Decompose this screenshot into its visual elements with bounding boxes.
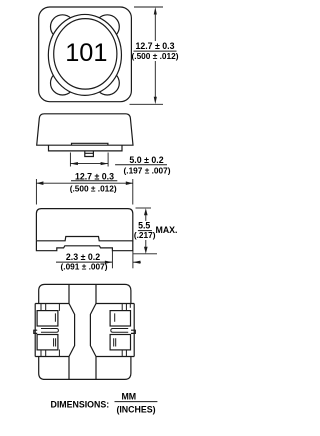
svg-text:12.7 ± 0.3: 12.7 ± 0.3 — [135, 41, 174, 51]
svg-text:(.197 ± .007): (.197 ± .007) — [124, 165, 171, 175]
svg-text:101: 101 — [65, 39, 107, 67]
svg-text:DIMENSIONS:: DIMENSIONS: — [51, 400, 110, 410]
svg-text:5.0 ± 0.2: 5.0 ± 0.2 — [129, 155, 163, 165]
svg-text:MM: MM — [121, 391, 136, 401]
svg-text:(.500 ± .012): (.500 ± .012) — [70, 183, 117, 193]
svg-text:(INCHES): (INCHES) — [116, 404, 155, 414]
svg-text:5.5: 5.5 — [138, 221, 150, 231]
svg-text:2.3 ± 0.2: 2.3 ± 0.2 — [66, 252, 100, 262]
svg-text:12.7 ± 0.3: 12.7 ± 0.3 — [75, 172, 114, 182]
svg-text:(.091 ± .007): (.091 ± .007) — [61, 262, 108, 272]
svg-text:(.217): (.217) — [134, 230, 156, 240]
svg-text:MAX.: MAX. — [156, 225, 178, 235]
svg-text:(.500 ± .012): (.500 ± .012) — [132, 51, 179, 61]
